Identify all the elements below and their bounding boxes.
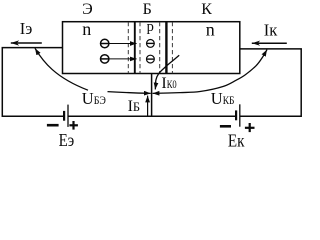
svg-text:Iк: Iк [264, 20, 278, 39]
svg-text:Iэ: Iэ [20, 19, 33, 38]
svg-text:n: n [206, 20, 215, 40]
svg-text:Б: Б [143, 1, 152, 18]
svg-text:Eэ: Eэ [59, 130, 75, 150]
svg-text:p: p [147, 19, 154, 35]
svg-text:IБ: IБ [128, 98, 141, 115]
svg-text:Э: Э [82, 1, 93, 18]
svg-text:Eк: Eк [228, 131, 245, 151]
svg-text:К: К [201, 1, 212, 18]
svg-text:n: n [82, 19, 91, 39]
svg-text:IК0: IК0 [161, 75, 176, 92]
